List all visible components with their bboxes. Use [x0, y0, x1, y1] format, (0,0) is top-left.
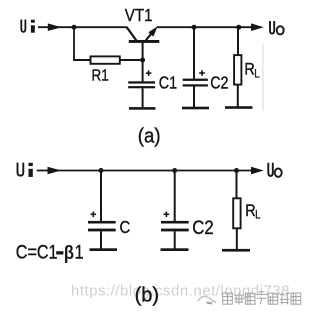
watermark logo icon: [198, 296, 216, 303]
ground bar (RL, circuit b): [222, 249, 250, 252]
output arrow Uo (circuit b): [251, 167, 264, 175]
label Ui (circuit a): [21, 20, 35, 33]
capacitor C2 (electrolytic, circuit b): [161, 171, 189, 249]
svg-text:R1: R1: [92, 67, 109, 84]
svg-text:C2: C2: [192, 217, 213, 238]
capacitor C2 (electrolytic, circuit a): [183, 27, 208, 107]
svg-text:https://blog.csdn.net/longdi73: https://blog.csdn.net/longdi738: [71, 283, 290, 300]
label Uo (circuit b): [268, 163, 281, 177]
svg-text:VT1: VT1: [125, 6, 153, 25]
resistor R1: [91, 56, 120, 63]
node A junction dot (input node, circuit a): [72, 25, 77, 30]
node C junction dot (circuit b): [99, 168, 104, 173]
capacitor C (electrolytic, circuit b): [88, 171, 116, 249]
wire top rail (circuit b): [50, 170, 253, 172]
wire node A to collector: [74, 26, 127, 28]
svg-text:1: 1: [75, 241, 84, 263]
output arrow Uo (circuit a): [251, 23, 264, 31]
svg-text:C=C1: C=C1: [16, 241, 58, 263]
svg-text:C1: C1: [159, 74, 177, 93]
svg-text:(b): (b): [135, 285, 159, 307]
input arrow (circuit a): [38, 23, 74, 31]
resistor RL (circuit a): [234, 27, 241, 107]
wire emitter to output node: [157, 26, 253, 28]
label RL (circuit a): [244, 60, 259, 80]
ground bar (C, circuit b): [90, 248, 118, 251]
node C2 junction dot (circuit a): [192, 25, 197, 30]
resistor RL (circuit b): [233, 171, 240, 250]
svg-text:R: R: [245, 202, 255, 220]
ground bar (C2, circuit b): [161, 248, 189, 251]
node C2 junction dot (circuit b): [172, 168, 177, 173]
input arrow (circuit b): [37, 167, 61, 175]
ground bar (C2, circuit a): [182, 107, 209, 110]
ground bar (C1): [129, 107, 156, 110]
label equation C=C1-B1: [16, 241, 84, 263]
label Ui (circuit b): [18, 163, 33, 177]
transistor VT1: [126, 26, 159, 60]
label RL (circuit b): [245, 202, 260, 222]
svg-text:R: R: [244, 60, 254, 78]
node base junction dot: [140, 58, 145, 63]
node RL junction dot (circuit b): [234, 168, 239, 173]
node RL junction dot (circuit a): [236, 25, 241, 30]
wire R1 to base node: [120, 59, 144, 61]
svg-text:L: L: [255, 209, 260, 222]
ground bar (RL, circuit a): [225, 106, 253, 109]
svg-text:C: C: [120, 218, 131, 237]
svg-text:L: L: [254, 68, 259, 81]
svg-text:(a): (a): [138, 126, 161, 148]
scan artifact faint line: [262, 44, 264, 111]
svg-text:β: β: [64, 242, 74, 264]
watermark chinese text: [223, 292, 301, 305]
capacitor C1 (electrolytic): [128, 60, 155, 108]
wire node A down to R1: [73, 27, 90, 60]
svg-text:C2: C2: [210, 74, 228, 93]
label Uo (circuit a): [270, 21, 284, 34]
